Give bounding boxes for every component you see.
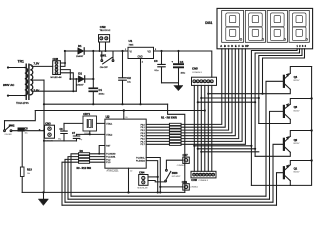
wire segment DP: [181, 49, 245, 145]
wire Q4 collector: [263, 89, 291, 93]
node CN6 stub junction: [159, 186, 161, 188]
wire D2 row: [70, 78, 93, 80]
wire primary top: [8, 67, 25, 69]
U2 pin labels right: [136, 124, 146, 162]
wire CN4 pin1 stub: [148, 176, 158, 178]
switch SW3: [165, 169, 171, 182]
node branch lower digit1 junctions: [193, 145, 195, 147]
svg-text:C2: C2: [127, 76, 131, 80]
wire CN6 stub: [160, 186, 183, 188]
connector CN2: [99, 35, 110, 42]
svg-text:CN3: CN3: [45, 121, 51, 125]
svg-text:CN4: CN4: [139, 171, 145, 175]
svg-text:MOLEX-2M: MOLEX-2M: [138, 187, 148, 189]
crystal X1: [83, 116, 97, 131]
svg-text:VI: VI: [130, 52, 133, 54]
capacitor C6: [61, 123, 67, 140]
svg-text:BC557: BC557: [294, 143, 300, 145]
node primary top terminal: [7, 66, 9, 68]
svg-text:TRAN-2P3S: TRAN-2P3S: [16, 102, 29, 105]
IC U2: [105, 119, 146, 168]
wire Q1 emitter: [290, 161, 311, 165]
node left column row junction: [43, 129, 45, 131]
node CN8 pin3 junction on D2 row: [69, 78, 71, 80]
node D2 cathode junction: [92, 78, 94, 80]
wire base bus 3: [65, 201, 273, 203]
DIS1 digit 1: [226, 13, 242, 41]
node U2 vcc junction: [123, 109, 125, 111]
svg-text:CN9: CN9: [182, 180, 188, 184]
transformer TR1: [25, 64, 33, 101]
wire R11 row to U2: [65, 159, 105, 202]
wire top row to U1: [97, 50, 129, 52]
svg-text:P1.1/AIN1: P1.1/AIN1: [106, 156, 116, 159]
wire CN5 column 6: [211, 85, 213, 171]
wire digit 1: [251, 49, 297, 186]
svg-text:P1.0/AIN0: P1.0/AIN0: [106, 153, 116, 156]
wire base bus 2: [68, 198, 270, 200]
svg-text:10k: 10k: [27, 173, 30, 175]
wire branch lower digit3: [201, 151, 258, 153]
svg-text:XTAL1: XTAL1: [106, 122, 113, 125]
U2 pin labels left: [106, 122, 116, 164]
node Q3 emitter rail junction: [310, 97, 312, 99]
svg-text:XTAL2: XTAL2: [106, 133, 113, 136]
svg-text:TR1: TR1: [18, 60, 25, 64]
wire Q1 base: [277, 173, 284, 206]
wire segment A: [181, 49, 222, 125]
svg-text:10u: 10u: [25, 132, 28, 134]
svg-text:AT89C2051: AT89C2051: [107, 170, 120, 173]
wire Q2 base: [273, 144, 284, 202]
wire Q4 base: [266, 81, 284, 196]
svg-text:DP: DP: [245, 44, 249, 48]
wire R9 row to U2: [71, 154, 105, 196]
DIS1 digit 3: [271, 13, 286, 41]
capacitor C7: [73, 134, 79, 141]
svg-text:CN7: CN7: [183, 153, 189, 157]
svg-text:U1: U1: [129, 39, 133, 43]
wire CN2 stubs: [100, 42, 106, 51]
wire XTAL1: [64, 122, 105, 124]
wire crystal bottom stub: [89, 131, 91, 134]
wire Q3 collector: [259, 119, 291, 123]
wire left ground column: [43, 80, 45, 192]
svg-text:GND: GND: [138, 57, 143, 59]
svg-text:P1.5/SDA: P1.5/SDA: [136, 160, 145, 163]
svg-text:1N4007: 1N4007: [76, 84, 84, 86]
connector CN4: [139, 175, 148, 186]
wire rectified top row: [65, 50, 78, 52]
svg-text:MOLEX-4M: MOLEX-4M: [51, 77, 62, 79]
wire branch digit3: [201, 97, 258, 99]
node C4 branch: [177, 50, 179, 52]
wire segment B: [181, 49, 225, 127]
wire SW2 top loop: [5, 111, 36, 121]
wire secondary top tap: [32, 65, 53, 67]
svg-text:CON6GL3: CON6GL3: [192, 72, 203, 74]
svg-text:7.5V: 7.5V: [34, 62, 40, 66]
svg-text:TBLOCK-I2: TBLOCK-I2: [100, 30, 112, 32]
wire ground rail drop right: [168, 104, 185, 192]
svg-text:ON-OFF: ON-OFF: [100, 67, 109, 69]
wire branch digit2: [198, 101, 255, 103]
svg-text:SW3: SW3: [172, 171, 178, 175]
wire CN5 column 1: [193, 85, 195, 171]
wire primary bottom: [8, 95, 25, 97]
node RST junction: [98, 153, 100, 155]
resistor network R9-R12: [79, 153, 90, 164]
node Q1 emitter rail junction: [310, 159, 312, 161]
node CN8 pin1 junction: [64, 62, 66, 64]
transistor Q4: [284, 73, 290, 89]
wire U1 output row: [154, 50, 212, 52]
wire Q1 collector row to digit1: [251, 184, 290, 186]
connector CN7: [183, 157, 190, 163]
node C2 top junction: [121, 50, 123, 52]
connector CN6: [183, 184, 190, 190]
wire CN5 column 2: [197, 85, 199, 171]
wire U2 pin20 stub: [123, 111, 125, 120]
ground symbol bottom: [39, 192, 49, 205]
connector CN3: [45, 125, 55, 138]
wire U2 P3 stubs to R1-R8: [146, 124, 169, 144]
wire SW3 to CN7: [166, 160, 182, 169]
wire CN5 column 4: [204, 85, 206, 171]
wire digit 2: [255, 49, 299, 157]
wire VCC row: [35, 110, 205, 112]
svg-text:D2: D2: [78, 72, 82, 76]
svg-text:SW1: SW1: [100, 54, 107, 58]
svg-text:R13: R13: [27, 168, 32, 172]
node D1 anode junction: [64, 50, 66, 52]
wire right rail: [290, 67, 311, 186]
node CN7 chain junctions: [157, 191, 159, 193]
ground symbol power: [174, 86, 183, 91]
wire CN5 column 5: [207, 85, 209, 171]
svg-text:7805: 7805: [129, 44, 135, 46]
wire CN8 pin3 stub: [60, 70, 70, 79]
svg-text:DIS1: DIS1: [205, 21, 212, 25]
switch SW2: [4, 121, 12, 132]
wire branch lower digit2: [198, 148, 255, 150]
svg-text:230V AC: 230V AC: [3, 83, 14, 87]
wire CN5 supply riser: [211, 51, 213, 77]
wire Q4 emitter: [290, 67, 311, 74]
svg-text:BC557: BC557: [294, 80, 300, 82]
node CN4 stub junction: [157, 176, 159, 178]
wire R10 row to U2: [68, 157, 105, 200]
node CN2 stub junction: [99, 50, 101, 52]
node branch Q4 junctions: [207, 93, 209, 95]
svg-text:CN8: CN8: [53, 57, 59, 61]
wire R12 row to U2: [62, 162, 105, 205]
node U1 ground junction: [139, 103, 141, 105]
wire segment D: [181, 49, 232, 133]
wire Q2 collector: [255, 152, 290, 156]
wire secondary bottom tap: [32, 90, 77, 92]
svg-text:C3: C3: [154, 59, 158, 63]
wire Q3 emitter: [290, 99, 311, 105]
connector CN5: [192, 77, 217, 85]
svg-text:Q2: Q2: [294, 138, 298, 142]
node left column upper rail junction: [43, 103, 45, 105]
svg-text:33p: 33p: [58, 139, 61, 141]
node left column crystal rail junction: [43, 140, 45, 142]
wire digit 4: [263, 49, 305, 94]
resistor R13: [20, 131, 24, 192]
wire segment C: [181, 49, 229, 130]
transistor Q2: [284, 136, 290, 152]
svg-text:1000u: 1000u: [99, 93, 106, 95]
svg-text:CON2BL1: CON2BL1: [177, 165, 185, 167]
wire digit 3: [259, 49, 302, 124]
svg-text:CON2BL1: CON2BL1: [190, 186, 198, 188]
transistor Q3: [284, 104, 290, 120]
svg-text:Q4: Q4: [294, 75, 298, 79]
node VCC column junction: [204, 109, 206, 111]
capacitor C3: [158, 51, 165, 83]
svg-text:CN6: CN6: [191, 178, 197, 182]
wire ground rail upper: [44, 103, 168, 105]
switch SW1: [101, 51, 114, 64]
capacitor C4: [162, 51, 184, 86]
wire bottom tap riser to D2: [75, 79, 77, 91]
node primary bottom terminal: [7, 95, 9, 97]
svg-text:R1 - R8 330R: R1 - R8 330R: [161, 116, 177, 120]
svg-text:D1: D1: [78, 44, 82, 48]
wire riser to D1 row: [60, 51, 65, 66]
svg-text:R9 - R12 56R: R9 - R12 56R: [77, 167, 92, 170]
wire CN8 pin1 stub: [60, 62, 65, 64]
node C3 branch: [160, 50, 162, 52]
svg-text:1N4007: 1N4007: [76, 56, 84, 58]
wire CN4 pin2 to SW3: [148, 181, 165, 182]
U1 pin labels: [125, 49, 157, 64]
node branch digit2 junctions: [197, 101, 199, 103]
wire U2 P1.5 stub: [146, 161, 158, 193]
wire segment G: [181, 49, 242, 142]
svg-text:BC557: BC557: [294, 110, 300, 112]
node branch lower digit3 junction: [200, 151, 202, 153]
node Q2 emitter rail junction: [310, 129, 312, 131]
svg-text:P1.4/SCL: P1.4/SCL: [136, 157, 145, 159]
diode D2: [78, 76, 84, 82]
wire SW2 row: [12, 129, 18, 131]
svg-text:CN5: CN5: [192, 67, 198, 71]
wire branch lower digit1: [194, 145, 251, 147]
svg-text:R9: R9: [80, 149, 84, 153]
svg-text:CON6GL3: CON6GL3: [199, 180, 209, 182]
node bottom tap riser junction: [75, 78, 77, 80]
DIS1 digit 4: [292, 13, 307, 41]
wire secondary centre tap: [32, 79, 44, 81]
DIS1 digit 2: [249, 13, 264, 41]
node branch digit3 junctions: [200, 97, 202, 99]
node branch lower digit2 junctions: [197, 148, 199, 150]
capacitor C5: [18, 128, 44, 132]
wire segment E: [181, 49, 235, 136]
node ground symbol junction: [42, 191, 44, 193]
diode D1: [78, 48, 84, 54]
node C1 top junction: [92, 50, 94, 52]
wire CN8 pin4 stub: [60, 73, 73, 91]
svg-text:DIP-SPST: DIP-SPST: [172, 176, 182, 178]
wire cathode join vertical: [92, 51, 94, 88]
node C2 ground junction: [121, 103, 123, 105]
svg-text:ON-OFF: ON-OFF: [5, 134, 13, 136]
wire Q2 emitter: [290, 131, 311, 137]
svg-text:33p: 33p: [79, 139, 82, 141]
wire Q1 collector: [289, 181, 291, 186]
node U2 pin10 ground junction: [127, 191, 129, 193]
svg-text:SW2: SW2: [9, 124, 15, 128]
svg-text:C1: C1: [99, 88, 103, 92]
connector CN8: [53, 61, 61, 75]
node crystal junction: [89, 133, 91, 135]
wire U2 RST stub: [99, 146, 105, 154]
wire D1 cathode: [85, 50, 97, 52]
wire U2 P1.4 stub: [146, 158, 160, 193]
wire base bus 1: [71, 195, 266, 197]
svg-text:U2: U2: [106, 115, 110, 119]
wire crystal ground rail: [44, 140, 77, 142]
svg-text:CN2: CN2: [100, 25, 106, 29]
svg-text:BC557: BC557: [294, 172, 300, 174]
wire XTAL2: [77, 133, 105, 135]
svg-text:Q3: Q3: [294, 105, 298, 109]
wire segment F: [181, 49, 239, 139]
wire U2 pin10 stub: [128, 168, 130, 192]
wire CN5 column 3: [200, 85, 202, 171]
capacitor C1: [89, 88, 97, 104]
wire Q3 base: [270, 111, 284, 199]
svg-text:VO: VO: [148, 52, 152, 54]
connector CN6 lower display header: [191, 171, 216, 178]
wire bottom ground rail: [22, 191, 185, 193]
wire base bus 4: [62, 204, 277, 206]
resistor network R1-R8: [169, 123, 181, 145]
svg-text:Q1: Q1: [294, 166, 298, 170]
display DIS1 outer box: [217, 8, 313, 48]
svg-text:CRY1: CRY1: [83, 112, 90, 116]
regulator U1: [128, 47, 154, 104]
node CN8 pin4 junction: [72, 90, 74, 92]
capacitor C2: [119, 51, 127, 104]
svg-text:C4: C4: [180, 60, 184, 64]
wire branch to Q4 collector: [208, 93, 262, 95]
transistor Q1: [284, 165, 290, 181]
node C1 ground junction: [92, 103, 94, 105]
